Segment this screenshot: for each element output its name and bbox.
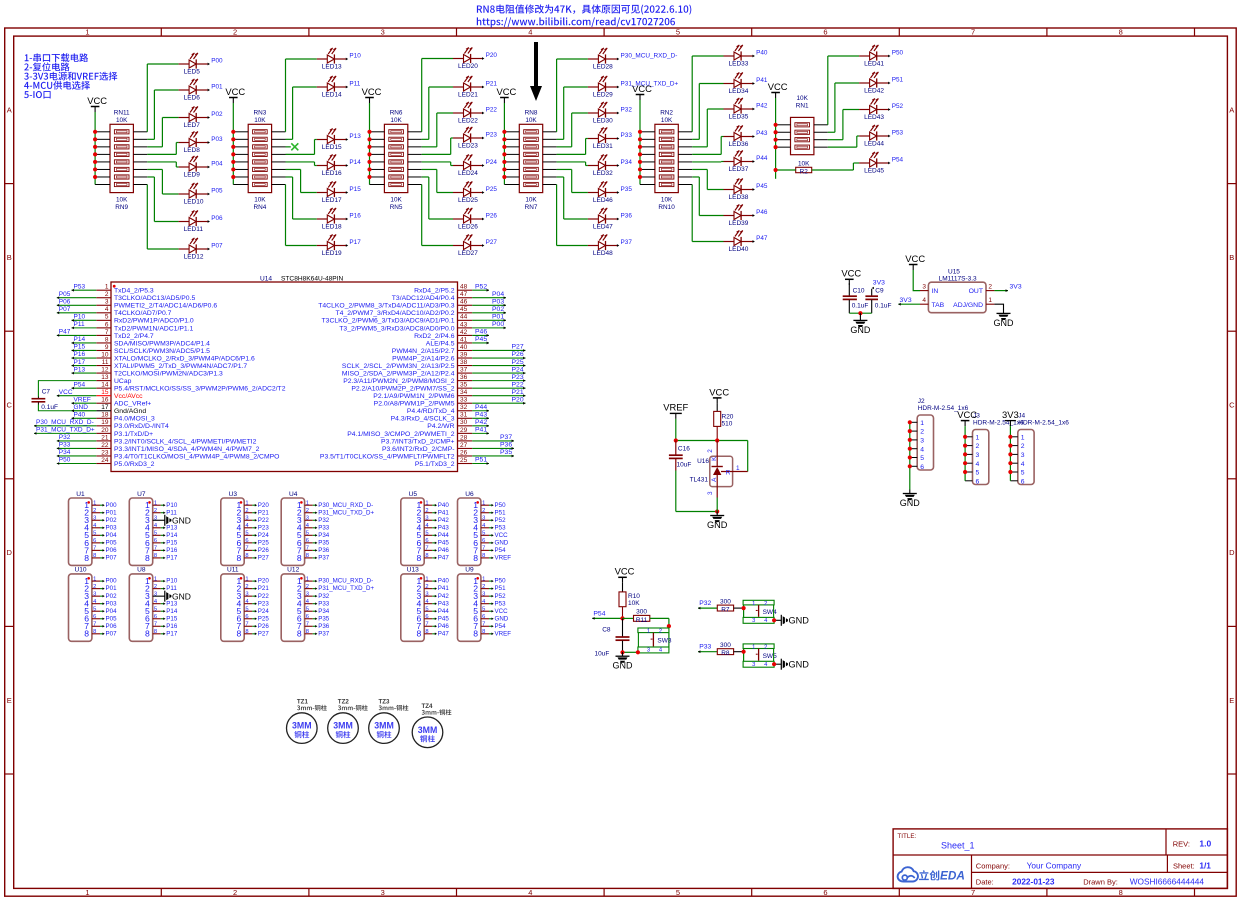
svg-text:10: 10 bbox=[101, 351, 109, 358]
LED LED39 bbox=[724, 204, 768, 227]
svg-text:U5: U5 bbox=[409, 491, 418, 498]
svg-text:LED25: LED25 bbox=[458, 197, 478, 204]
svg-text:RN2: RN2 bbox=[660, 110, 673, 117]
U14 pin 44 T3CLKO_2/PWM6_3/TxD3/ADC9/AD1/P0.1 bbox=[322, 314, 473, 325]
header U1 pin 7 P06 bbox=[84, 545, 117, 555]
svg-text:LED20: LED20 bbox=[458, 63, 478, 70]
U14 pin 34 P2.1/A9/PWM1N_2/PWM6 bbox=[373, 389, 472, 400]
U14 pin 6 TxD2/PWM1N/ADC1/P1.1 bbox=[96, 321, 193, 332]
svg-text:1.0: 1.0 bbox=[1199, 839, 1211, 849]
svg-text:REV:: REV: bbox=[1173, 840, 1190, 849]
U14 pin 31 P4.3/RxD_4/SCLK_3 bbox=[391, 412, 473, 423]
header U1 pin 1 P00 bbox=[84, 500, 117, 510]
svg-text:P16: P16 bbox=[166, 623, 178, 630]
svg-text:P3.5/T1/T0CLKO/SS_4/PWMFLT/PWM: P3.5/T1/T0CLKO/SS_4/PWMFLT/PWMFLT2 bbox=[320, 453, 455, 460]
resistor network RN3/RN4 bbox=[248, 110, 271, 211]
svg-text:LED5: LED5 bbox=[184, 68, 201, 75]
capacitor C10 0.1uF bbox=[843, 283, 869, 313]
svg-text:P32: P32 bbox=[699, 600, 711, 607]
svg-text:LED40: LED40 bbox=[729, 246, 749, 253]
net label VREF (U14 pin 16) bbox=[72, 396, 97, 404]
svg-text:8: 8 bbox=[297, 553, 302, 563]
svg-text:P06: P06 bbox=[106, 623, 118, 630]
ground GND (SW4) bbox=[781, 615, 809, 626]
svg-text:XTALI/PWM5_2/TxD_3/PWM4N/ADC7/: XTALI/PWM5_2/TxD_3/PWM4N/ADC7/P1.7 bbox=[114, 363, 247, 370]
svg-text:U14: U14 bbox=[260, 276, 272, 283]
LED LED34 bbox=[724, 72, 768, 95]
svg-text:P32: P32 bbox=[318, 517, 330, 524]
svg-text:1: 1 bbox=[647, 629, 650, 635]
header U6 pin 1 P50 bbox=[473, 500, 506, 510]
svg-text:P26: P26 bbox=[258, 547, 270, 554]
svg-text:P20: P20 bbox=[258, 578, 270, 585]
capacitor C16 10uF bbox=[669, 441, 691, 471]
svg-text:P50: P50 bbox=[495, 578, 507, 585]
wire SW5 to GND bbox=[772, 662, 781, 666]
net label P01 (U14 pin 44) bbox=[472, 314, 506, 322]
svg-text:P03: P03 bbox=[106, 600, 118, 607]
svg-text:D: D bbox=[6, 548, 12, 557]
svg-text:VCC: VCC bbox=[957, 409, 977, 420]
wire RN pin 7 to P26 (group 3) bbox=[408, 177, 453, 219]
svg-text:17: 17 bbox=[101, 404, 109, 411]
svg-text:P15: P15 bbox=[166, 539, 178, 546]
svg-text:P03: P03 bbox=[492, 298, 504, 305]
svg-text:P32: P32 bbox=[318, 593, 330, 600]
svg-text:PWMETI2_2/T4/ADC14/AD6/P0.6: PWMETI2_2/T4/ADC14/AD6/P0.6 bbox=[114, 303, 217, 310]
svg-text:4: 4 bbox=[528, 28, 532, 37]
LED LED24 bbox=[453, 154, 497, 177]
U14 pin 36 P2.3/A11/PWM2N_2/PWM8/MOSI_2 bbox=[343, 374, 472, 385]
svg-text:27: 27 bbox=[460, 442, 468, 449]
svg-text:8: 8 bbox=[1119, 888, 1123, 897]
svg-text:P3.4/T0/T1CLKO/MOSI_4/PWM4P_4/: P3.4/T0/T1CLKO/MOSI_4/PWM4P_4/PWM8_2/CMP… bbox=[114, 453, 279, 460]
svg-text:8: 8 bbox=[473, 553, 478, 563]
wire J2 pins to GND bbox=[908, 420, 912, 489]
header U5 pin 2 P41 bbox=[417, 508, 450, 518]
svg-text:3: 3 bbox=[752, 618, 755, 624]
wire RN pin 6 to P45 (group 5) bbox=[678, 169, 723, 189]
svg-text:P52: P52 bbox=[892, 103, 904, 110]
svg-text:1: 1 bbox=[976, 434, 980, 441]
header U12 pin 8 P37 bbox=[297, 629, 330, 639]
power flag VCC (group 3) bbox=[362, 86, 382, 103]
svg-text:P4.0/MOSI_3: P4.0/MOSI_3 bbox=[114, 416, 155, 423]
header U11 pin 2 P21 bbox=[237, 584, 270, 594]
header U13 pin 3 P42 bbox=[417, 591, 450, 601]
svg-text:LED37: LED37 bbox=[729, 166, 749, 173]
svg-text:P3.3/INT1/MISO_4/SDA_4/PWM4N_4: P3.3/INT1/MISO_4/SDA_4/PWM4N_4/PWM7_2 bbox=[114, 446, 260, 453]
svg-text:4: 4 bbox=[105, 306, 109, 313]
svg-text:P34: P34 bbox=[621, 159, 633, 166]
header U5 pin 3 P42 bbox=[417, 515, 450, 525]
svg-text:P20: P20 bbox=[258, 502, 270, 509]
svg-text:P07: P07 bbox=[106, 630, 118, 637]
svg-text:P05: P05 bbox=[59, 291, 71, 298]
title block bbox=[893, 829, 1227, 889]
svg-text:3: 3 bbox=[381, 28, 385, 37]
header U10 pin 5 P04 bbox=[84, 606, 117, 616]
svg-text:T3CLKO/ADC13/AD5/P0.5: T3CLKO/ADC13/AD5/P0.5 bbox=[114, 295, 195, 302]
net label P42 (U14 pin 30) bbox=[472, 419, 489, 427]
wire RN pin 3 to P32 (group 4) bbox=[543, 113, 588, 147]
svg-text:LED31: LED31 bbox=[593, 143, 613, 150]
header U3 bbox=[221, 491, 244, 566]
svg-text:VREF: VREF bbox=[495, 630, 512, 637]
svg-text:P26: P26 bbox=[512, 351, 524, 358]
header U13 bbox=[401, 567, 424, 642]
wire RN pin 6 to P35 (group 4) bbox=[543, 169, 588, 192]
wire RN pin 6 to P15 (group 2) bbox=[272, 169, 317, 192]
U14 pin 3 PWMETI2_2/T4/ADC14/AD6/P0.6 bbox=[96, 299, 217, 310]
svg-text:D: D bbox=[1229, 548, 1235, 557]
svg-text:10K: 10K bbox=[661, 196, 673, 203]
svg-text:Sheet:: Sheet: bbox=[1173, 861, 1195, 870]
wire RN pin 5 to P24 (group 3) bbox=[408, 162, 453, 166]
svg-text:P22: P22 bbox=[258, 593, 270, 600]
svg-text:300: 300 bbox=[636, 609, 647, 616]
net label P50 (U14 pin 24) bbox=[57, 457, 97, 465]
svg-text:P15: P15 bbox=[74, 344, 86, 351]
svg-text:P25: P25 bbox=[258, 539, 270, 546]
svg-text:P16: P16 bbox=[166, 547, 178, 554]
svg-text:P44: P44 bbox=[756, 155, 768, 162]
ground GND (SW3) bbox=[613, 652, 634, 670]
svg-text:4: 4 bbox=[1021, 461, 1025, 468]
LED LED20 bbox=[453, 47, 497, 70]
header U12 pin 7 P36 bbox=[297, 621, 330, 631]
svg-text:P05: P05 bbox=[211, 188, 223, 195]
svg-text:A: A bbox=[7, 105, 12, 114]
svg-text:0.1uF: 0.1uF bbox=[875, 302, 892, 309]
svg-text:P35: P35 bbox=[318, 615, 330, 622]
U14 pin 13 UCap bbox=[96, 374, 131, 385]
net label P32 (SW4) bbox=[698, 600, 717, 609]
svg-text:Your Company: Your Company bbox=[1027, 860, 1082, 870]
svg-text:P22: P22 bbox=[486, 107, 498, 114]
svg-text:2: 2 bbox=[764, 644, 767, 650]
svg-text:1/1: 1/1 bbox=[1199, 860, 1211, 870]
svg-text:P43: P43 bbox=[438, 524, 450, 531]
svg-text:TL431: TL431 bbox=[690, 476, 709, 483]
svg-text:P51: P51 bbox=[892, 77, 904, 84]
svg-text:34: 34 bbox=[460, 389, 468, 396]
svg-text:LED39: LED39 bbox=[729, 220, 749, 227]
wire RN pin 7 to P36 (group 4) bbox=[543, 177, 588, 219]
svg-text:RN8: RN8 bbox=[525, 110, 538, 117]
net label P26 (U14 pin 39) bbox=[472, 351, 525, 359]
svg-text:P00: P00 bbox=[106, 502, 118, 509]
svg-text:TAB: TAB bbox=[932, 302, 945, 309]
svg-text:GND: GND bbox=[495, 615, 509, 622]
svg-text:P46: P46 bbox=[756, 209, 768, 216]
U14 pin 42 RxD2_2/P4.6 bbox=[414, 329, 472, 340]
resistor network RN1 bbox=[791, 95, 814, 155]
header U1 pin 4 P03 bbox=[84, 523, 117, 533]
svg-text:P34: P34 bbox=[318, 532, 330, 539]
svg-text:10K: 10K bbox=[628, 600, 640, 607]
svg-text:P31_MCU_TXD_D+: P31_MCU_TXD_D+ bbox=[318, 585, 374, 592]
svg-text:P04: P04 bbox=[106, 608, 118, 615]
wire VREF node bbox=[674, 419, 748, 472]
net label P43 (U14 pin 31) bbox=[472, 411, 489, 419]
svg-text:P30_MCU_RXD_D-: P30_MCU_RXD_D- bbox=[318, 578, 373, 585]
svg-text:P25: P25 bbox=[486, 186, 498, 193]
svg-text:R20: R20 bbox=[722, 413, 734, 420]
svg-text:P15: P15 bbox=[349, 186, 361, 193]
U15 pin 3 IN wire from VCC bbox=[913, 270, 928, 291]
wire SW4 pins 2-4 tie bbox=[773, 605, 775, 618]
resistor R10 10K bbox=[619, 583, 640, 619]
header U13 pin 5 P44 bbox=[417, 606, 450, 616]
header U5 pin 1 P40 bbox=[417, 500, 450, 510]
svg-text:RxD2_2/P4.6: RxD2_2/P4.6 bbox=[414, 333, 455, 340]
wire RN pin 8 to P17 (group 2) bbox=[272, 185, 317, 246]
header U10 pin 8 P07 bbox=[84, 629, 117, 639]
svg-text:U12: U12 bbox=[287, 567, 299, 574]
svg-text:14: 14 bbox=[101, 382, 109, 389]
svg-text:C7: C7 bbox=[42, 389, 51, 396]
svg-text:8: 8 bbox=[473, 629, 478, 639]
LED LED48 bbox=[588, 234, 632, 257]
svg-text:2: 2 bbox=[233, 888, 237, 897]
svg-text:P3.1/TxD/D+: P3.1/TxD/D+ bbox=[114, 431, 153, 438]
net label P25 (U14 pin 38) bbox=[472, 359, 525, 367]
svg-text:P42: P42 bbox=[438, 517, 450, 524]
svg-text:26: 26 bbox=[460, 449, 468, 456]
resistor network RN8/RN7 bbox=[519, 110, 542, 211]
svg-text:3V3: 3V3 bbox=[1002, 409, 1019, 420]
svg-text:U10: U10 bbox=[74, 567, 86, 574]
svg-text:LED41: LED41 bbox=[864, 60, 884, 67]
U14 pin 48 RxD4_2/P5.2 bbox=[414, 284, 472, 295]
net label P21 (U14 pin 34) bbox=[472, 389, 525, 397]
svg-text:P54: P54 bbox=[495, 623, 507, 630]
header U7 pin 6 P15 bbox=[145, 538, 178, 548]
net label P17 (U14 pin 11) bbox=[72, 359, 97, 367]
header U6 pin 8 VREF bbox=[473, 553, 511, 563]
svg-text:P05: P05 bbox=[106, 539, 118, 546]
LED LED27 bbox=[453, 234, 497, 257]
svg-text:P37: P37 bbox=[318, 555, 330, 562]
svg-text:LED9: LED9 bbox=[184, 171, 201, 178]
net label P22 (U14 pin 35) bbox=[472, 381, 525, 389]
power flag VCC (group 2) bbox=[225, 86, 245, 103]
svg-text:18: 18 bbox=[101, 412, 109, 419]
wire C7 to GND pin 17 bbox=[38, 405, 96, 413]
svg-text:1: 1 bbox=[1021, 434, 1025, 441]
svg-text:P13: P13 bbox=[349, 133, 361, 140]
svg-text:B: B bbox=[1229, 253, 1234, 262]
svg-text:RN9: RN9 bbox=[115, 204, 128, 211]
U14 pin 9 SCL/SCLK/PWM3N/ADC5/P1.5 bbox=[96, 344, 210, 355]
svg-text:2: 2 bbox=[988, 283, 992, 290]
svg-text:LED30: LED30 bbox=[593, 117, 613, 124]
svg-text:VCC: VCC bbox=[841, 268, 861, 279]
svg-text:LED24: LED24 bbox=[458, 170, 478, 177]
svg-text:3: 3 bbox=[381, 888, 385, 897]
svg-text:3MM: 3MM bbox=[292, 721, 312, 731]
header U11 pin 3 P22 bbox=[237, 591, 270, 601]
header U8 pin 7 P16 bbox=[145, 621, 178, 631]
svg-text:RN10: RN10 bbox=[658, 204, 675, 211]
header U12 pin 3 P32 bbox=[297, 591, 330, 601]
U14 pin 33 P2.0/A8/PWM1P_2/PWM5 bbox=[374, 397, 473, 408]
LED LED38 bbox=[724, 178, 768, 201]
wire RN pin 4 to P23 (group 3) bbox=[408, 138, 453, 154]
svg-text:P33: P33 bbox=[318, 524, 330, 531]
svg-text:P01: P01 bbox=[492, 314, 504, 321]
svg-text:LED44: LED44 bbox=[864, 140, 884, 147]
svg-text:7: 7 bbox=[971, 888, 975, 897]
svg-text:45: 45 bbox=[460, 306, 468, 313]
U14 pin 47 T3/ADC12/AD4/P0.4 bbox=[392, 291, 472, 302]
U14 pin 39 PWM4P_2/A14/P2.6 bbox=[392, 351, 472, 362]
svg-text:P01: P01 bbox=[106, 585, 118, 592]
svg-text:5: 5 bbox=[976, 470, 980, 477]
svg-text:P46: P46 bbox=[475, 329, 487, 336]
svg-text:P54: P54 bbox=[593, 610, 605, 617]
wire RN pin 5 to P34 (group 4) bbox=[543, 162, 588, 166]
net flag VREF bbox=[663, 401, 688, 419]
net label P02 (U14 pin 45) bbox=[472, 306, 506, 314]
wire RN pin 7 to P46 (group 5) bbox=[678, 177, 723, 216]
power flag VCC (C10) bbox=[841, 268, 861, 285]
svg-text:Company:: Company: bbox=[976, 861, 1010, 870]
header U6 pin 6 GND bbox=[473, 538, 509, 548]
svg-text:EDA: EDA bbox=[940, 869, 965, 883]
svg-text:LED33: LED33 bbox=[729, 60, 749, 67]
U14 pin 18 P4.0/MOSI_3 bbox=[96, 412, 155, 423]
net label P13 (U14 pin 12) bbox=[72, 366, 97, 374]
U14 pin 21 P3.2/INT0/SCLK_4/SCL_4/PWMETI/PWMETI2 bbox=[96, 434, 256, 445]
capacitor C7 0.1uF bbox=[32, 389, 58, 411]
wire RN pin 8 to P47 (group 5) bbox=[678, 185, 723, 242]
svg-text:P20: P20 bbox=[486, 52, 498, 59]
svg-text:47: 47 bbox=[460, 291, 468, 298]
svg-text:P23: P23 bbox=[512, 374, 524, 381]
svg-text:LED26: LED26 bbox=[458, 223, 478, 230]
header U6 pin 3 P52 bbox=[473, 515, 506, 525]
svg-text:LED8: LED8 bbox=[184, 147, 201, 154]
svg-text:8: 8 bbox=[105, 336, 109, 343]
svg-text:LED42: LED42 bbox=[864, 87, 884, 94]
switch SW5 bbox=[743, 644, 777, 668]
svg-text:WOSHI6666444444: WOSHI6666444444 bbox=[1130, 877, 1205, 887]
svg-text:U9: U9 bbox=[465, 567, 474, 574]
LED LED35 bbox=[724, 98, 768, 121]
net label P47 (U14 pin 7) bbox=[57, 329, 97, 337]
svg-text:1: 1 bbox=[105, 284, 109, 291]
header U3 pin 7 P26 bbox=[237, 545, 270, 555]
svg-text:LED34: LED34 bbox=[729, 88, 749, 95]
LED LED28 bbox=[588, 48, 677, 71]
resistor network RN6/RN5 bbox=[384, 110, 407, 211]
svg-text:P00: P00 bbox=[106, 578, 118, 585]
svg-text:P22: P22 bbox=[512, 381, 524, 388]
header U9 pin 8 VREF bbox=[473, 629, 511, 639]
net label P44 (U14 pin 32) bbox=[472, 404, 489, 412]
U14 pin 1 TxD4_2/P5.3 bbox=[96, 284, 154, 295]
wire VCC bus (group 4) bbox=[503, 103, 505, 185]
annotation note RN8 resistor change bbox=[477, 4, 691, 14]
svg-text:5: 5 bbox=[105, 314, 109, 321]
header U1 pin 3 P02 bbox=[84, 515, 117, 525]
svg-text:U1: U1 bbox=[76, 491, 85, 498]
header U8 pin 3 GND bbox=[145, 591, 191, 602]
svg-text:P2.1/A9/PWM1N_2/PWM6: P2.1/A9/PWM1N_2/PWM6 bbox=[373, 393, 454, 400]
svg-text:TITLE:: TITLE: bbox=[897, 833, 916, 840]
svg-text:P47: P47 bbox=[59, 329, 71, 336]
svg-text:VCC: VCC bbox=[497, 86, 517, 97]
svg-text:C8: C8 bbox=[602, 627, 611, 634]
wire RN pin 7 to P06 (group 1) bbox=[133, 177, 178, 222]
header U11 bbox=[221, 567, 244, 642]
header U9 pin 7 P54 bbox=[473, 621, 506, 631]
header U7 pin 5 P14 bbox=[145, 530, 178, 540]
header U3 pin 8 P27 bbox=[237, 553, 270, 563]
svg-text:P00: P00 bbox=[492, 321, 504, 328]
annotation arrow pointing at RN8 bbox=[530, 42, 542, 101]
svg-text:A: A bbox=[711, 477, 718, 482]
header J4 HDR-M-2.54_1x6 bbox=[1010, 413, 1069, 486]
power flag VCC (group 6) bbox=[768, 81, 788, 98]
wire SW3 pins 1-3 tie bbox=[637, 633, 639, 647]
svg-text:P41: P41 bbox=[756, 77, 768, 84]
regulator U15 LM1117S-3.3 bbox=[928, 269, 986, 313]
svg-text:12: 12 bbox=[101, 366, 109, 373]
svg-text:10K: 10K bbox=[254, 196, 266, 203]
net label P15 (U14 pin 9) bbox=[72, 344, 97, 352]
svg-text:SW5: SW5 bbox=[763, 653, 777, 660]
LED LED16 bbox=[317, 154, 361, 177]
svg-text:35: 35 bbox=[460, 382, 468, 389]
svg-text:24: 24 bbox=[101, 457, 109, 464]
svg-text:LED16: LED16 bbox=[322, 170, 342, 177]
svg-text:4: 4 bbox=[528, 888, 532, 897]
svg-text:E: E bbox=[7, 696, 12, 705]
header U11 pin 8 P27 bbox=[237, 629, 270, 639]
svg-text:33: 33 bbox=[460, 397, 468, 404]
U14 pin 25 P5.1/TxD3_2 bbox=[415, 457, 472, 468]
svg-text:LED14: LED14 bbox=[322, 91, 342, 98]
RN1 left pins bbox=[774, 123, 791, 150]
svg-text:LED47: LED47 bbox=[593, 223, 613, 230]
svg-text:P23: P23 bbox=[258, 600, 270, 607]
wire RN1 pin 4 to P53 bbox=[814, 136, 859, 147]
svg-text:3: 3 bbox=[647, 648, 650, 654]
header U7 pin 2 P11 bbox=[145, 508, 177, 518]
svg-text:ALE/P4.5: ALE/P4.5 bbox=[426, 340, 455, 347]
svg-text:RN1: RN1 bbox=[796, 103, 809, 110]
svg-text:P24: P24 bbox=[258, 532, 270, 539]
mounting post TZ2 3mm bbox=[328, 699, 368, 744]
header U11 pin 7 P26 bbox=[237, 621, 270, 631]
LED LED33 bbox=[724, 45, 768, 68]
svg-text:P31_MCU_TXD_D+: P31_MCU_TXD_D+ bbox=[36, 427, 95, 434]
svg-text:U13: U13 bbox=[407, 567, 419, 574]
header U10 pin 3 P02 bbox=[84, 591, 117, 601]
svg-text:J2: J2 bbox=[918, 398, 925, 405]
wire RN pin 6 to P25 (group 3) bbox=[408, 169, 453, 192]
svg-text:GND: GND bbox=[900, 498, 921, 508]
svg-text:PWM4P_2/A14/P2.6: PWM4P_2/A14/P2.6 bbox=[392, 355, 455, 362]
U14 pin 5 RxD2/PWM1P/ADC0/P1.0 bbox=[96, 314, 194, 325]
svg-text:32: 32 bbox=[460, 404, 468, 411]
svg-text:8: 8 bbox=[84, 553, 89, 563]
svg-text:P37: P37 bbox=[621, 239, 633, 246]
svg-text:LED32: LED32 bbox=[593, 170, 613, 177]
